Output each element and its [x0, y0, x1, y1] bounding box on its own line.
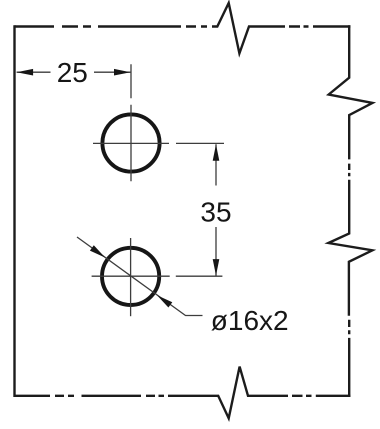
- extension line for 35-dim at bottom hole: [176, 275, 223, 277]
- svg-text:ø16x2: ø16x2: [211, 305, 289, 336]
- dimension line 35 (broken for text): [215, 144, 217, 275]
- plate outline: left edge (solid): [13, 25, 15, 397]
- arrowhead right, 25-dim: [114, 69, 131, 76]
- dimension line 25 (broken for text): [17, 71, 131, 73]
- centerline vertical, bottom hole: [130, 238, 132, 316]
- hole circle bottom: [102, 248, 159, 305]
- arrowhead leader lower-right: [157, 295, 172, 307]
- centerline horizontal, top hole: [93, 142, 169, 144]
- plate outline: right edge (two breaks + phantom dashes): [328, 25, 372, 397]
- arrowhead down, 35-dim: [213, 259, 220, 276]
- extension line for 35-dim at top hole: [176, 142, 224, 144]
- plate outline: bottom edge (phantom dashes + break): [15, 367, 351, 419]
- hole circle top: [102, 114, 159, 171]
- svg-text:35: 35: [200, 197, 231, 228]
- arrowhead leader upper-left: [90, 245, 105, 257]
- centerline horizontal, bottom hole: [92, 275, 170, 277]
- arrowhead up, 35-dim: [213, 144, 220, 161]
- arrowhead left, 25-dim: [17, 69, 33, 76]
- leader line for Ø16x2 (diagonal through hole, then horizontal): [77, 237, 203, 316]
- centerline vertical, top hole (with extension up to 25-dim): [130, 64, 132, 181]
- svg-text:25: 25: [57, 57, 88, 88]
